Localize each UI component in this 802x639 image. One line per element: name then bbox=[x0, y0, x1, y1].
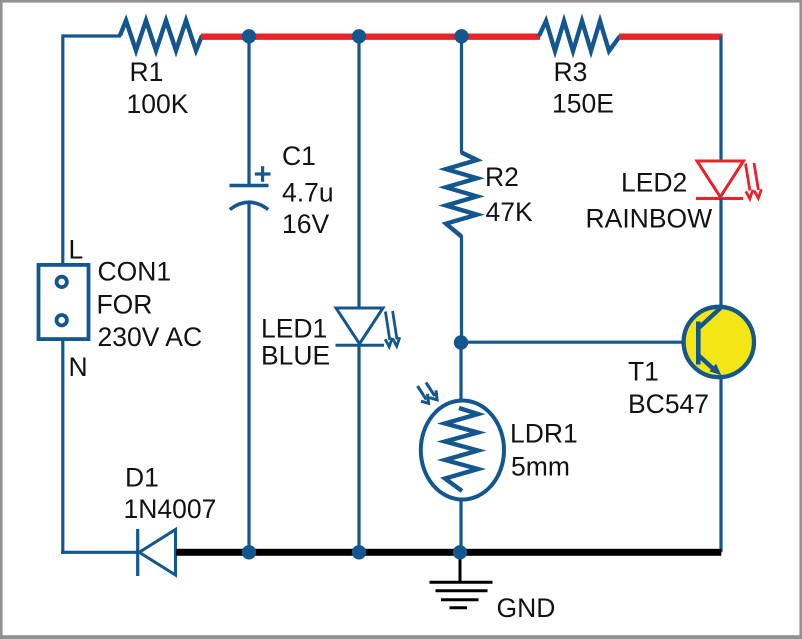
wire top-left horizontal bbox=[63, 34, 121, 37]
svg-text:BC547: BC547 bbox=[628, 389, 709, 419]
svg-text:D1: D1 bbox=[125, 463, 159, 493]
wire red top rail right segment bbox=[619, 34, 723, 40]
wire bottom-left to diode bbox=[61, 551, 138, 554]
svg-text:FOR: FOR bbox=[97, 290, 153, 320]
svg-text:GND: GND bbox=[497, 593, 556, 623]
node top LED1 bbox=[352, 29, 366, 43]
svg-text:R3: R3 bbox=[554, 57, 588, 87]
svg-text:BLUE: BLUE bbox=[261, 341, 330, 371]
wire T1 emitter to ground rail bbox=[719, 375, 722, 552]
svg-text:LED1: LED1 bbox=[261, 314, 327, 344]
wire LDR to ground rail bbox=[459, 498, 462, 552]
svg-text:150E: 150E bbox=[552, 89, 614, 119]
svg-text:L: L bbox=[69, 235, 84, 265]
node base junction bbox=[454, 335, 468, 349]
svg-text:16V: 16V bbox=[282, 209, 329, 239]
wire C1 branch lower bbox=[247, 203, 250, 553]
wire R2 to node bbox=[460, 236, 463, 343]
svg-text:T1: T1 bbox=[628, 357, 659, 387]
wire LED1 branch lower bbox=[357, 345, 360, 552]
svg-text:N: N bbox=[69, 352, 88, 382]
svg-text:RAINBOW: RAINBOW bbox=[586, 204, 713, 234]
svg-text:4.7u: 4.7u bbox=[282, 178, 334, 208]
wire base from node to T1 bbox=[462, 341, 698, 344]
wire LED2 to T1 collector bbox=[719, 199, 722, 311]
LED LED1 bbox=[336, 308, 400, 347]
diode D1 bbox=[138, 529, 176, 576]
svg-text:1N4007: 1N4007 bbox=[124, 494, 217, 524]
wire R2 branch upper bbox=[460, 36, 463, 154]
svg-text:CON1: CON1 bbox=[98, 257, 172, 287]
resistor R3 bbox=[539, 21, 620, 51]
connector CON1 bbox=[39, 265, 89, 339]
node top C1 bbox=[242, 29, 256, 43]
svg-text:100K: 100K bbox=[127, 89, 189, 119]
wire C1 branch upper bbox=[247, 36, 250, 186]
capacitor C1 bbox=[230, 166, 271, 209]
wire LED1 branch upper bbox=[357, 36, 360, 310]
wire left rail upper bbox=[61, 34, 64, 266]
LED LED2 bbox=[696, 161, 761, 199]
svg-text:5mm: 5mm bbox=[511, 452, 570, 482]
node top R2 bbox=[454, 29, 468, 43]
svg-text:R2: R2 bbox=[485, 162, 519, 192]
wire LED2 branch upper bbox=[719, 36, 722, 162]
svg-text:R1: R1 bbox=[130, 57, 164, 87]
resistor R1 bbox=[120, 21, 202, 51]
wire node to LDR bbox=[459, 343, 462, 403]
svg-text:C1: C1 bbox=[282, 141, 316, 171]
svg-text:47K: 47K bbox=[486, 197, 533, 227]
wire left rail lower bbox=[61, 340, 64, 554]
svg-text:LDR1: LDR1 bbox=[510, 419, 578, 449]
photoresistor LDR1 bbox=[418, 383, 505, 500]
wire ground rail (black) bbox=[176, 549, 721, 556]
svg-text:230V AC: 230V AC bbox=[98, 322, 203, 352]
wire red top rail left segment bbox=[201, 34, 540, 40]
resistor R2 bbox=[446, 153, 477, 237]
node bottom LED1 bbox=[352, 545, 366, 559]
node bottom C1 bbox=[242, 545, 256, 559]
ground bbox=[430, 552, 493, 608]
svg-text:LED2: LED2 bbox=[621, 168, 687, 198]
node bottom ground bbox=[453, 545, 467, 559]
transistor T1 bbox=[684, 307, 754, 377]
